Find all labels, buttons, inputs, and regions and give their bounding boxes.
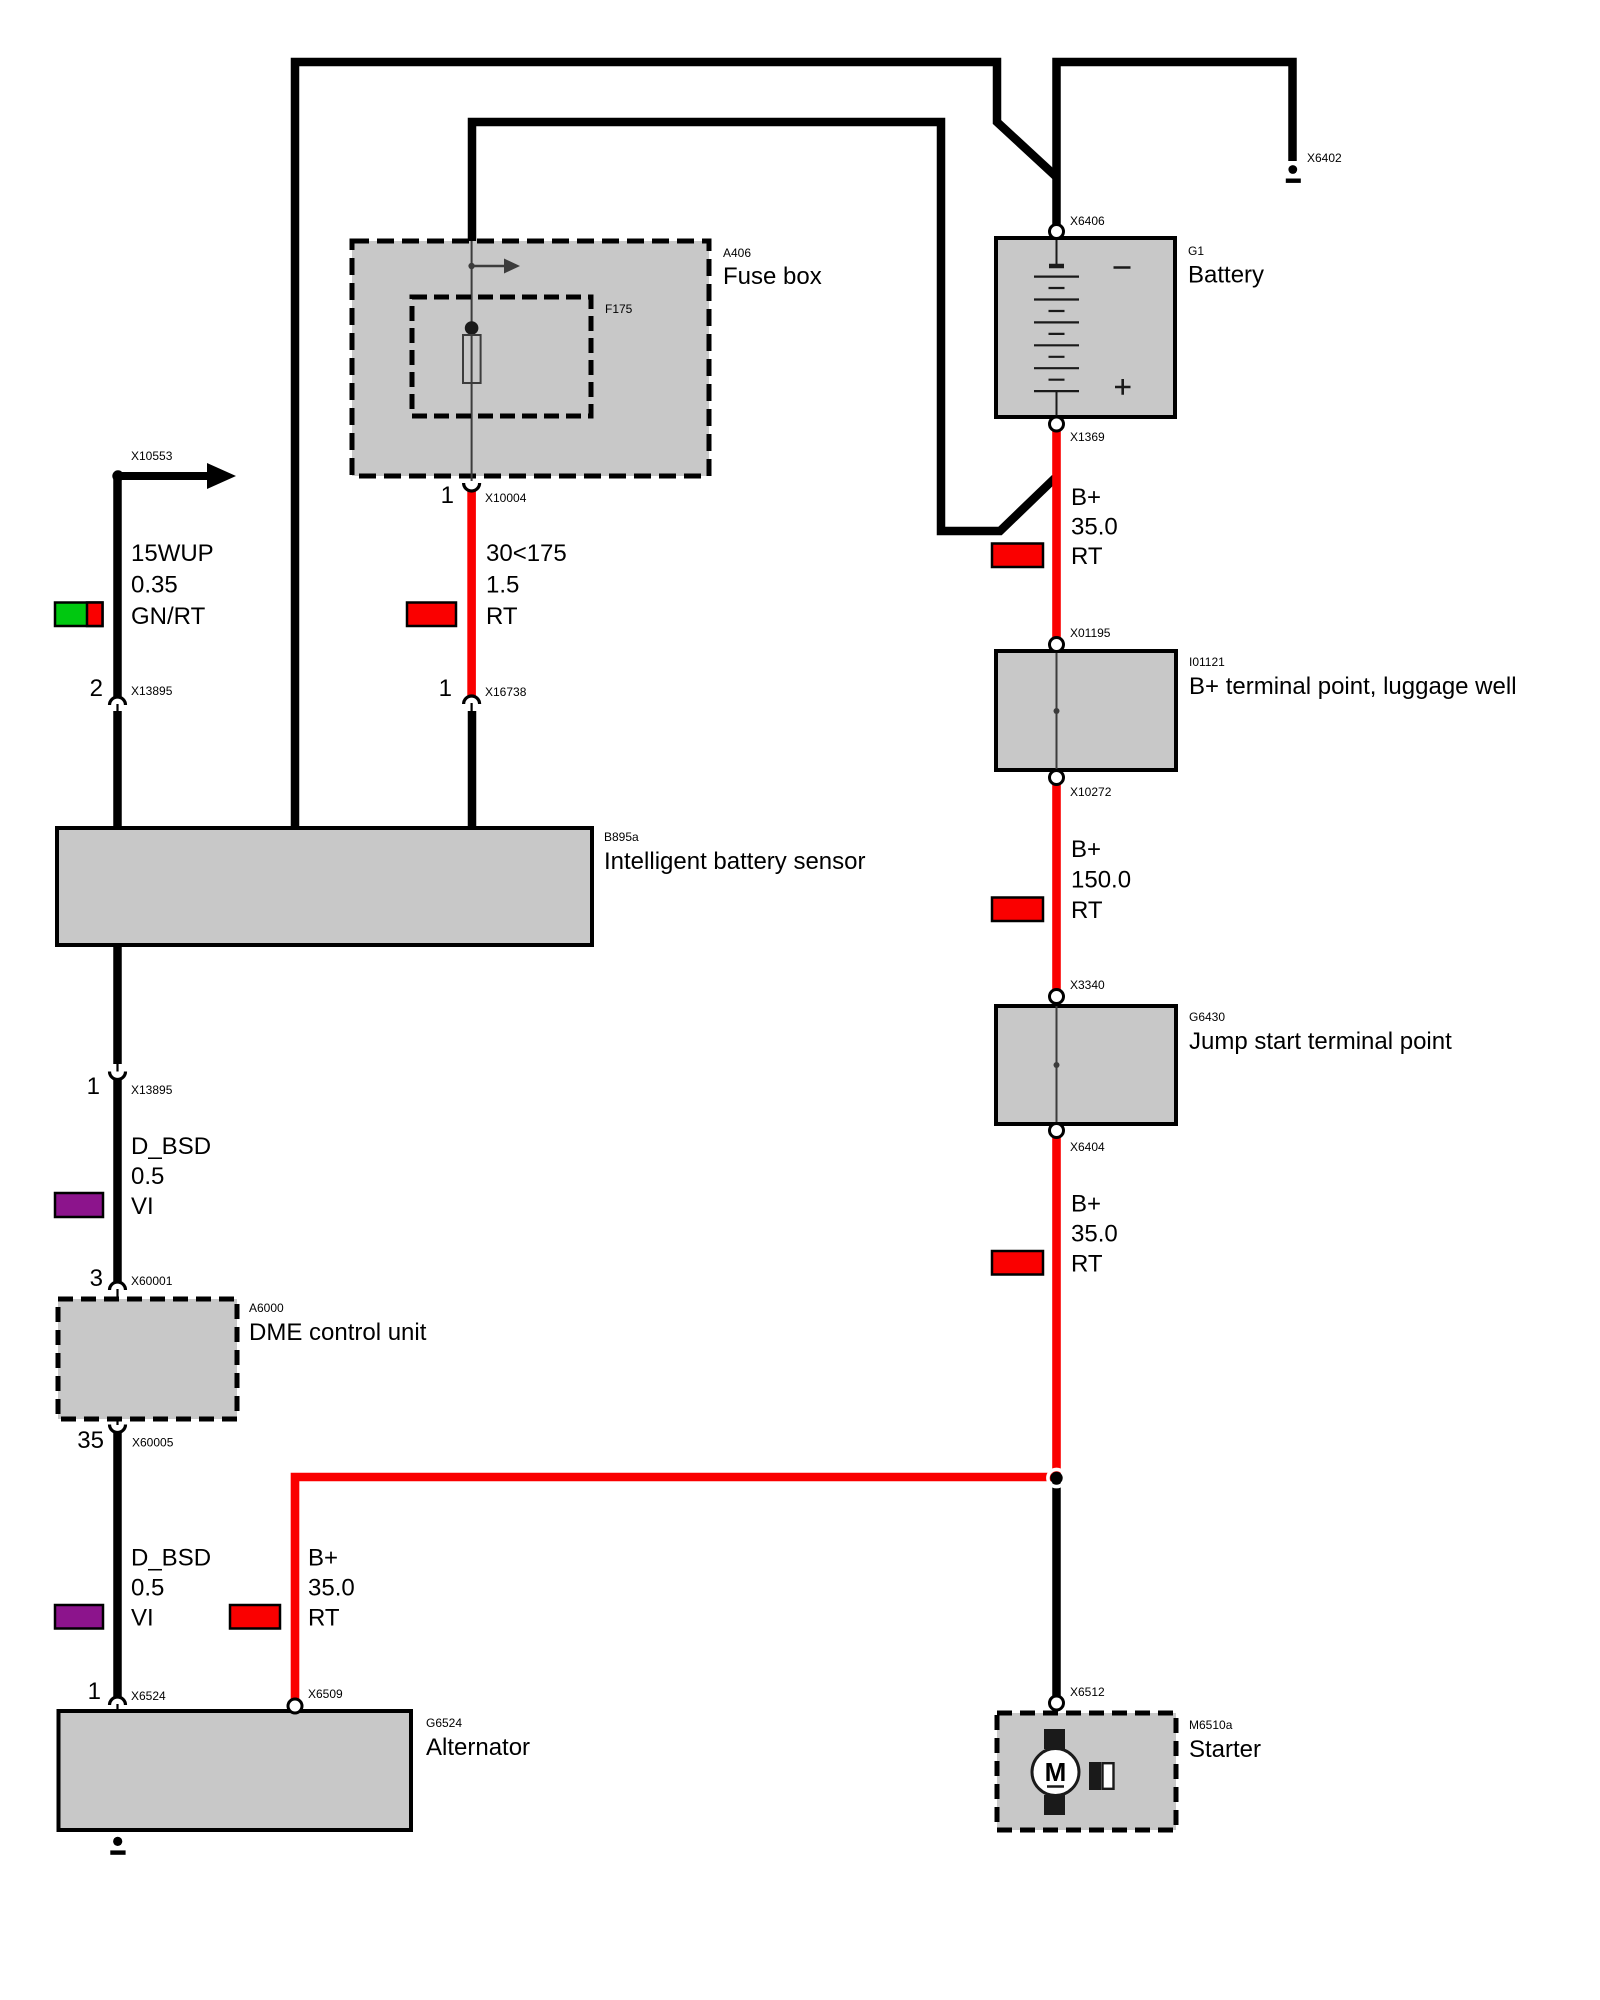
svg-text:RT: RT bbox=[308, 1605, 340, 1632]
svg-text:2: 2 bbox=[90, 675, 103, 702]
wire: left column X60005 to X6524 bbox=[113, 1433, 122, 1698]
svg-text:X6404: X6404 bbox=[1070, 1140, 1105, 1154]
wire: left column X13895 pin1 to X60001 bbox=[113, 1079, 122, 1282]
color swatch violet VI (lower) bbox=[55, 1605, 103, 1629]
svg-text:G6430: G6430 bbox=[1189, 1010, 1225, 1024]
color swatch red RT (fuse column) bbox=[407, 603, 456, 627]
wire: left column black wire X10553 down to X13895 pin2 bbox=[113, 479, 122, 697]
svg-text:Jump start terminal point: Jump start terminal point bbox=[1189, 1028, 1452, 1055]
svg-text:G1: G1 bbox=[1188, 244, 1204, 258]
svg-text:3: 3 bbox=[90, 1265, 103, 1292]
svg-text:1.5: 1.5 bbox=[486, 572, 519, 599]
terminal point I01121 bbox=[996, 651, 1517, 770]
wire: left column black wire X13895 pin2 to IBS top bbox=[113, 711, 122, 830]
svg-text:VI: VI bbox=[131, 1605, 154, 1632]
wire label B+ 150.0 RT bbox=[1071, 836, 1131, 924]
color swatch green/red GN/RT bbox=[55, 603, 103, 627]
svg-text:M: M bbox=[1045, 1757, 1067, 1787]
wire: middle black wire from IBS up, across top, down and diagonal to battery feed bbox=[295, 62, 1057, 830]
svg-text:35: 35 bbox=[77, 1427, 104, 1454]
svg-text:G6524: G6524 bbox=[426, 1716, 462, 1730]
connector X16738 pin 1 bbox=[439, 675, 527, 711]
svg-text:A6000: A6000 bbox=[249, 1301, 284, 1315]
svg-text:0.5: 0.5 bbox=[131, 1163, 164, 1190]
svg-text:15WUP: 15WUP bbox=[131, 540, 214, 567]
svg-text:RT: RT bbox=[1071, 897, 1103, 924]
svg-text:35.0: 35.0 bbox=[1071, 514, 1118, 541]
svg-text:30<175: 30<175 bbox=[486, 540, 567, 567]
wire label D_BSD 0.5 VI (upper) bbox=[131, 1133, 211, 1220]
wire: red B+ X10272 to X3340 bbox=[1052, 784, 1061, 990]
fuse F175 bbox=[412, 297, 633, 416]
color swatch red RT (battery) bbox=[992, 544, 1043, 568]
svg-text:X6509: X6509 bbox=[308, 1687, 343, 1701]
svg-text:Alternator: Alternator bbox=[426, 1734, 530, 1761]
svg-text:X6406: X6406 bbox=[1070, 214, 1105, 228]
connector X6509 bbox=[288, 1687, 343, 1713]
svg-text:B+: B+ bbox=[1071, 836, 1101, 863]
intelligent battery sensor B895a bbox=[57, 828, 865, 945]
wire label B+ 35.0 RT (battery) bbox=[1071, 484, 1118, 570]
fuse box A406 bbox=[352, 241, 822, 476]
connector X6524 pin 1 bbox=[88, 1678, 166, 1712]
svg-text:X01195: X01195 bbox=[1070, 626, 1111, 640]
connector X6406 bbox=[1050, 214, 1106, 239]
wire label D_BSD 0.5 VI (lower) bbox=[131, 1545, 211, 1632]
svg-text:M6510a: M6510a bbox=[1189, 1718, 1233, 1732]
connector X10272 bbox=[1050, 771, 1112, 800]
battery G1 bbox=[996, 238, 1264, 417]
wire: black wire fuse column X16738 to IBS top bbox=[468, 711, 477, 830]
svg-text:Fuse box: Fuse box bbox=[723, 263, 822, 290]
connector X13895 pin 2 bbox=[90, 675, 173, 711]
svg-text:X13895: X13895 bbox=[131, 684, 173, 698]
color swatch red RT (alternator feed) bbox=[230, 1605, 280, 1629]
wire label B+ 35.0 RT (alternator feed) bbox=[308, 1545, 355, 1632]
connector X60005 pin 35 bbox=[77, 1419, 173, 1454]
svg-text:X60005: X60005 bbox=[132, 1436, 174, 1450]
color swatch red RT (150.0) bbox=[992, 898, 1043, 922]
svg-text:GN/RT: GN/RT bbox=[131, 603, 206, 630]
wire: red B+ X6404 down to junction bbox=[1052, 1137, 1061, 1477]
svg-text:X1369: X1369 bbox=[1070, 430, 1105, 444]
svg-text:A406: A406 bbox=[723, 246, 751, 260]
wire: red fuse output X10004 to X16738 bbox=[467, 491, 476, 696]
svg-text:1: 1 bbox=[441, 482, 454, 509]
connector X6404 bbox=[1050, 1124, 1106, 1155]
svg-text:X6524: X6524 bbox=[131, 1689, 166, 1703]
wire label B+ 35.0 RT (jump start to junction) bbox=[1071, 1191, 1118, 1278]
wire: red battery B+ X1369 to X01195 bbox=[1052, 430, 1061, 638]
svg-text:Battery: Battery bbox=[1188, 262, 1264, 289]
svg-text:1: 1 bbox=[439, 675, 452, 702]
connector X3340 bbox=[1050, 978, 1106, 1004]
svg-text:0.35: 0.35 bbox=[131, 572, 178, 599]
wire: battery top feed from horizontal run down to X6406, plus run to X6402 ground bbox=[1057, 62, 1293, 225]
svg-text:150.0: 150.0 bbox=[1071, 867, 1131, 894]
svg-text:B+: B+ bbox=[308, 1545, 338, 1572]
svg-text:I01121: I01121 bbox=[1189, 655, 1225, 669]
ground X6402 bbox=[1286, 165, 1301, 183]
alternator G6524 bbox=[59, 1711, 531, 1830]
wire: red B+ branch to alternator X6509 bbox=[295, 1477, 1052, 1699]
node: junction dot on B+ line bbox=[1048, 1469, 1065, 1486]
svg-text:X3340: X3340 bbox=[1070, 978, 1105, 992]
svg-text:D_BSD: D_BSD bbox=[131, 1545, 211, 1572]
wire label 30<175 1.5 RT bbox=[486, 540, 567, 630]
svg-text:B+: B+ bbox=[1071, 1191, 1101, 1218]
svg-text:DME control unit: DME control unit bbox=[249, 1319, 427, 1346]
wire: left column IBS bottom to X13895 pin1 bbox=[113, 945, 122, 1064]
wire label 15WUP 0.35 GN/RT bbox=[131, 540, 214, 630]
svg-text:RT: RT bbox=[1071, 543, 1103, 570]
node X10553 branch stub with arrow bbox=[112, 463, 236, 489]
wire: black wire junction to starter X6512 bbox=[1052, 1478, 1061, 1696]
wire: thin lead through fuse box bbox=[471, 241, 473, 481]
svg-text:35.0: 35.0 bbox=[1071, 1221, 1118, 1248]
svg-text:RT: RT bbox=[486, 603, 518, 630]
DME control unit A6000 bbox=[58, 1299, 427, 1419]
svg-text:B+ terminal point, luggage wel: B+ terminal point, luggage well bbox=[1189, 673, 1517, 700]
color swatch red RT (jump start) bbox=[992, 1251, 1043, 1275]
svg-text:1: 1 bbox=[87, 1073, 100, 1100]
connector X13895 pin 1 bbox=[87, 1064, 173, 1100]
starter motor symbol M bbox=[1032, 1729, 1114, 1815]
svg-text:X6402: X6402 bbox=[1307, 151, 1342, 165]
connector X6512 bbox=[1050, 1685, 1106, 1710]
svg-text:X60001: X60001 bbox=[131, 1274, 173, 1288]
svg-text:Starter: Starter bbox=[1189, 1736, 1261, 1763]
svg-text:X13895: X13895 bbox=[131, 1083, 173, 1097]
connector X60001 pin 3 bbox=[90, 1265, 173, 1300]
svg-text:B895a: B895a bbox=[604, 830, 639, 844]
jump start terminal point G6430 bbox=[996, 1006, 1452, 1124]
svg-text:X10272: X10272 bbox=[1070, 785, 1112, 799]
connector X10004 pin 1 bbox=[441, 482, 527, 509]
svg-text:VI: VI bbox=[131, 1193, 154, 1220]
svg-text:F175: F175 bbox=[605, 302, 633, 316]
svg-text:X10553: X10553 bbox=[131, 449, 173, 463]
svg-text:35.0: 35.0 bbox=[308, 1575, 355, 1602]
svg-text:X10004: X10004 bbox=[485, 491, 527, 505]
node: branch dot and arrow inside fuse box bbox=[468, 259, 520, 274]
ground below alternator bbox=[110, 1837, 125, 1855]
svg-text:B+: B+ bbox=[1071, 484, 1101, 511]
wire: fuse feed wire from fuse box top corner across and down to battery positive lead diagonal bbox=[472, 122, 1055, 531]
svg-text:Intelligent battery sensor: Intelligent battery sensor bbox=[604, 848, 865, 875]
color swatch violet VI (upper) bbox=[55, 1193, 103, 1217]
svg-text:D_BSD: D_BSD bbox=[131, 1133, 211, 1160]
connector X01195 bbox=[1050, 626, 1111, 652]
svg-text:0.5: 0.5 bbox=[131, 1575, 164, 1602]
svg-text:1: 1 bbox=[88, 1678, 101, 1705]
starter M6510a bbox=[997, 1713, 1261, 1830]
connector X1369 bbox=[1050, 417, 1106, 444]
svg-text:X6512: X6512 bbox=[1070, 1685, 1105, 1699]
svg-text:X16738: X16738 bbox=[485, 685, 527, 699]
svg-text:RT: RT bbox=[1071, 1251, 1103, 1278]
